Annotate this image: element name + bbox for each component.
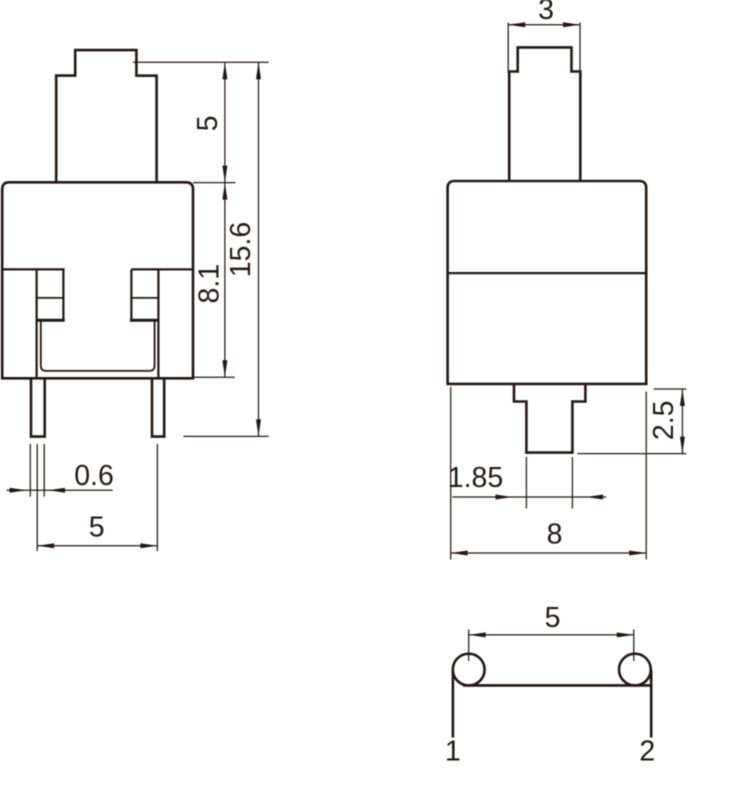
- svg-text:2.5: 2.5: [648, 400, 680, 440]
- right pin (front view): [152, 378, 164, 436]
- dimension line 5 (stem height): [224, 62, 226, 182]
- left pin (front view): [31, 378, 45, 436]
- extension line plunger right: [571, 457, 573, 509]
- inner ledge left: [2, 268, 64, 270]
- body parting line (side view): [448, 272, 647, 274]
- extension line top (stem ref): [133, 61, 269, 63]
- lead wire 2: [650, 671, 653, 738]
- dimension line 0.6 (pin width): [7, 489, 113, 491]
- terminal circle 2: [619, 654, 651, 686]
- inner ledge right: [131, 268, 193, 270]
- switch body (side view): [448, 181, 647, 384]
- extension line terminal 2 center: [633, 630, 635, 662]
- left clip bottom: [37, 319, 65, 322]
- switch body (front view): [2, 182, 193, 378]
- svg-text:8: 8: [547, 519, 563, 551]
- left inner wall: [35, 269, 37, 377]
- dimension line 8.1 (body height): [224, 183, 226, 378]
- svg-text:8.1: 8.1: [193, 264, 225, 304]
- extension line plunger bottom: [577, 453, 686, 455]
- dimension line 2.5: [681, 389, 683, 454]
- lead wire 1: [452, 671, 455, 738]
- extension line terminal 1 center: [468, 630, 470, 662]
- extension line plunger left: [525, 457, 527, 509]
- dimension line 8 (body width): [451, 552, 647, 554]
- svg-text:5: 5: [192, 115, 224, 131]
- svg-text:3: 3: [538, 0, 554, 26]
- extension line body top: [193, 182, 235, 184]
- svg-text:15.6: 15.6: [225, 222, 257, 277]
- svg-text:0.6: 0.6: [74, 460, 114, 492]
- svg-text:5: 5: [89, 511, 105, 543]
- plunger stem outline (front view): [56, 50, 156, 182]
- left clip edge: [62, 269, 64, 319]
- svg-text:1.85: 1.85: [448, 462, 503, 494]
- extension line pin right edge: [43, 444, 45, 497]
- extension line left pin center: [36, 444, 38, 551]
- svg-text:2: 2: [639, 736, 655, 768]
- plunger stem outline (side view): [509, 47, 580, 181]
- dimension line 5 (pin pitch): [37, 545, 157, 547]
- extension line stem left: [507, 23, 509, 74]
- dimension line 5 (terminal pitch): [469, 634, 634, 636]
- left clip mid line: [37, 297, 64, 299]
- extension line right pin center: [156, 444, 158, 551]
- inner U channel liner: [41, 321, 155, 371]
- right clip mid line: [131, 297, 158, 299]
- right clip edge: [130, 269, 132, 319]
- terminal circle 1: [453, 654, 485, 686]
- extension line body bottom: [193, 376, 235, 378]
- extension line stem right: [579, 23, 581, 74]
- right inner wall: [157, 269, 159, 377]
- dimension line 3 (stem width): [508, 24, 580, 26]
- svg-text:1: 1: [445, 736, 461, 768]
- extension line body left (8 ref): [450, 387, 452, 560]
- bottom boss and plunger (side view): [514, 384, 585, 453]
- right clip bottom: [130, 319, 159, 322]
- contact bar: [463, 684, 651, 687]
- extension line pin left edge: [29, 444, 31, 497]
- extension line boss top (2.5 ref): [654, 388, 687, 390]
- dimension line 1.85: [452, 496, 606, 498]
- extension line body right (8 ref): [645, 392, 647, 560]
- extension line pin bottom: [183, 435, 268, 437]
- dimension line 15.6 (total height): [258, 62, 260, 436]
- svg-text:5: 5: [545, 602, 561, 634]
